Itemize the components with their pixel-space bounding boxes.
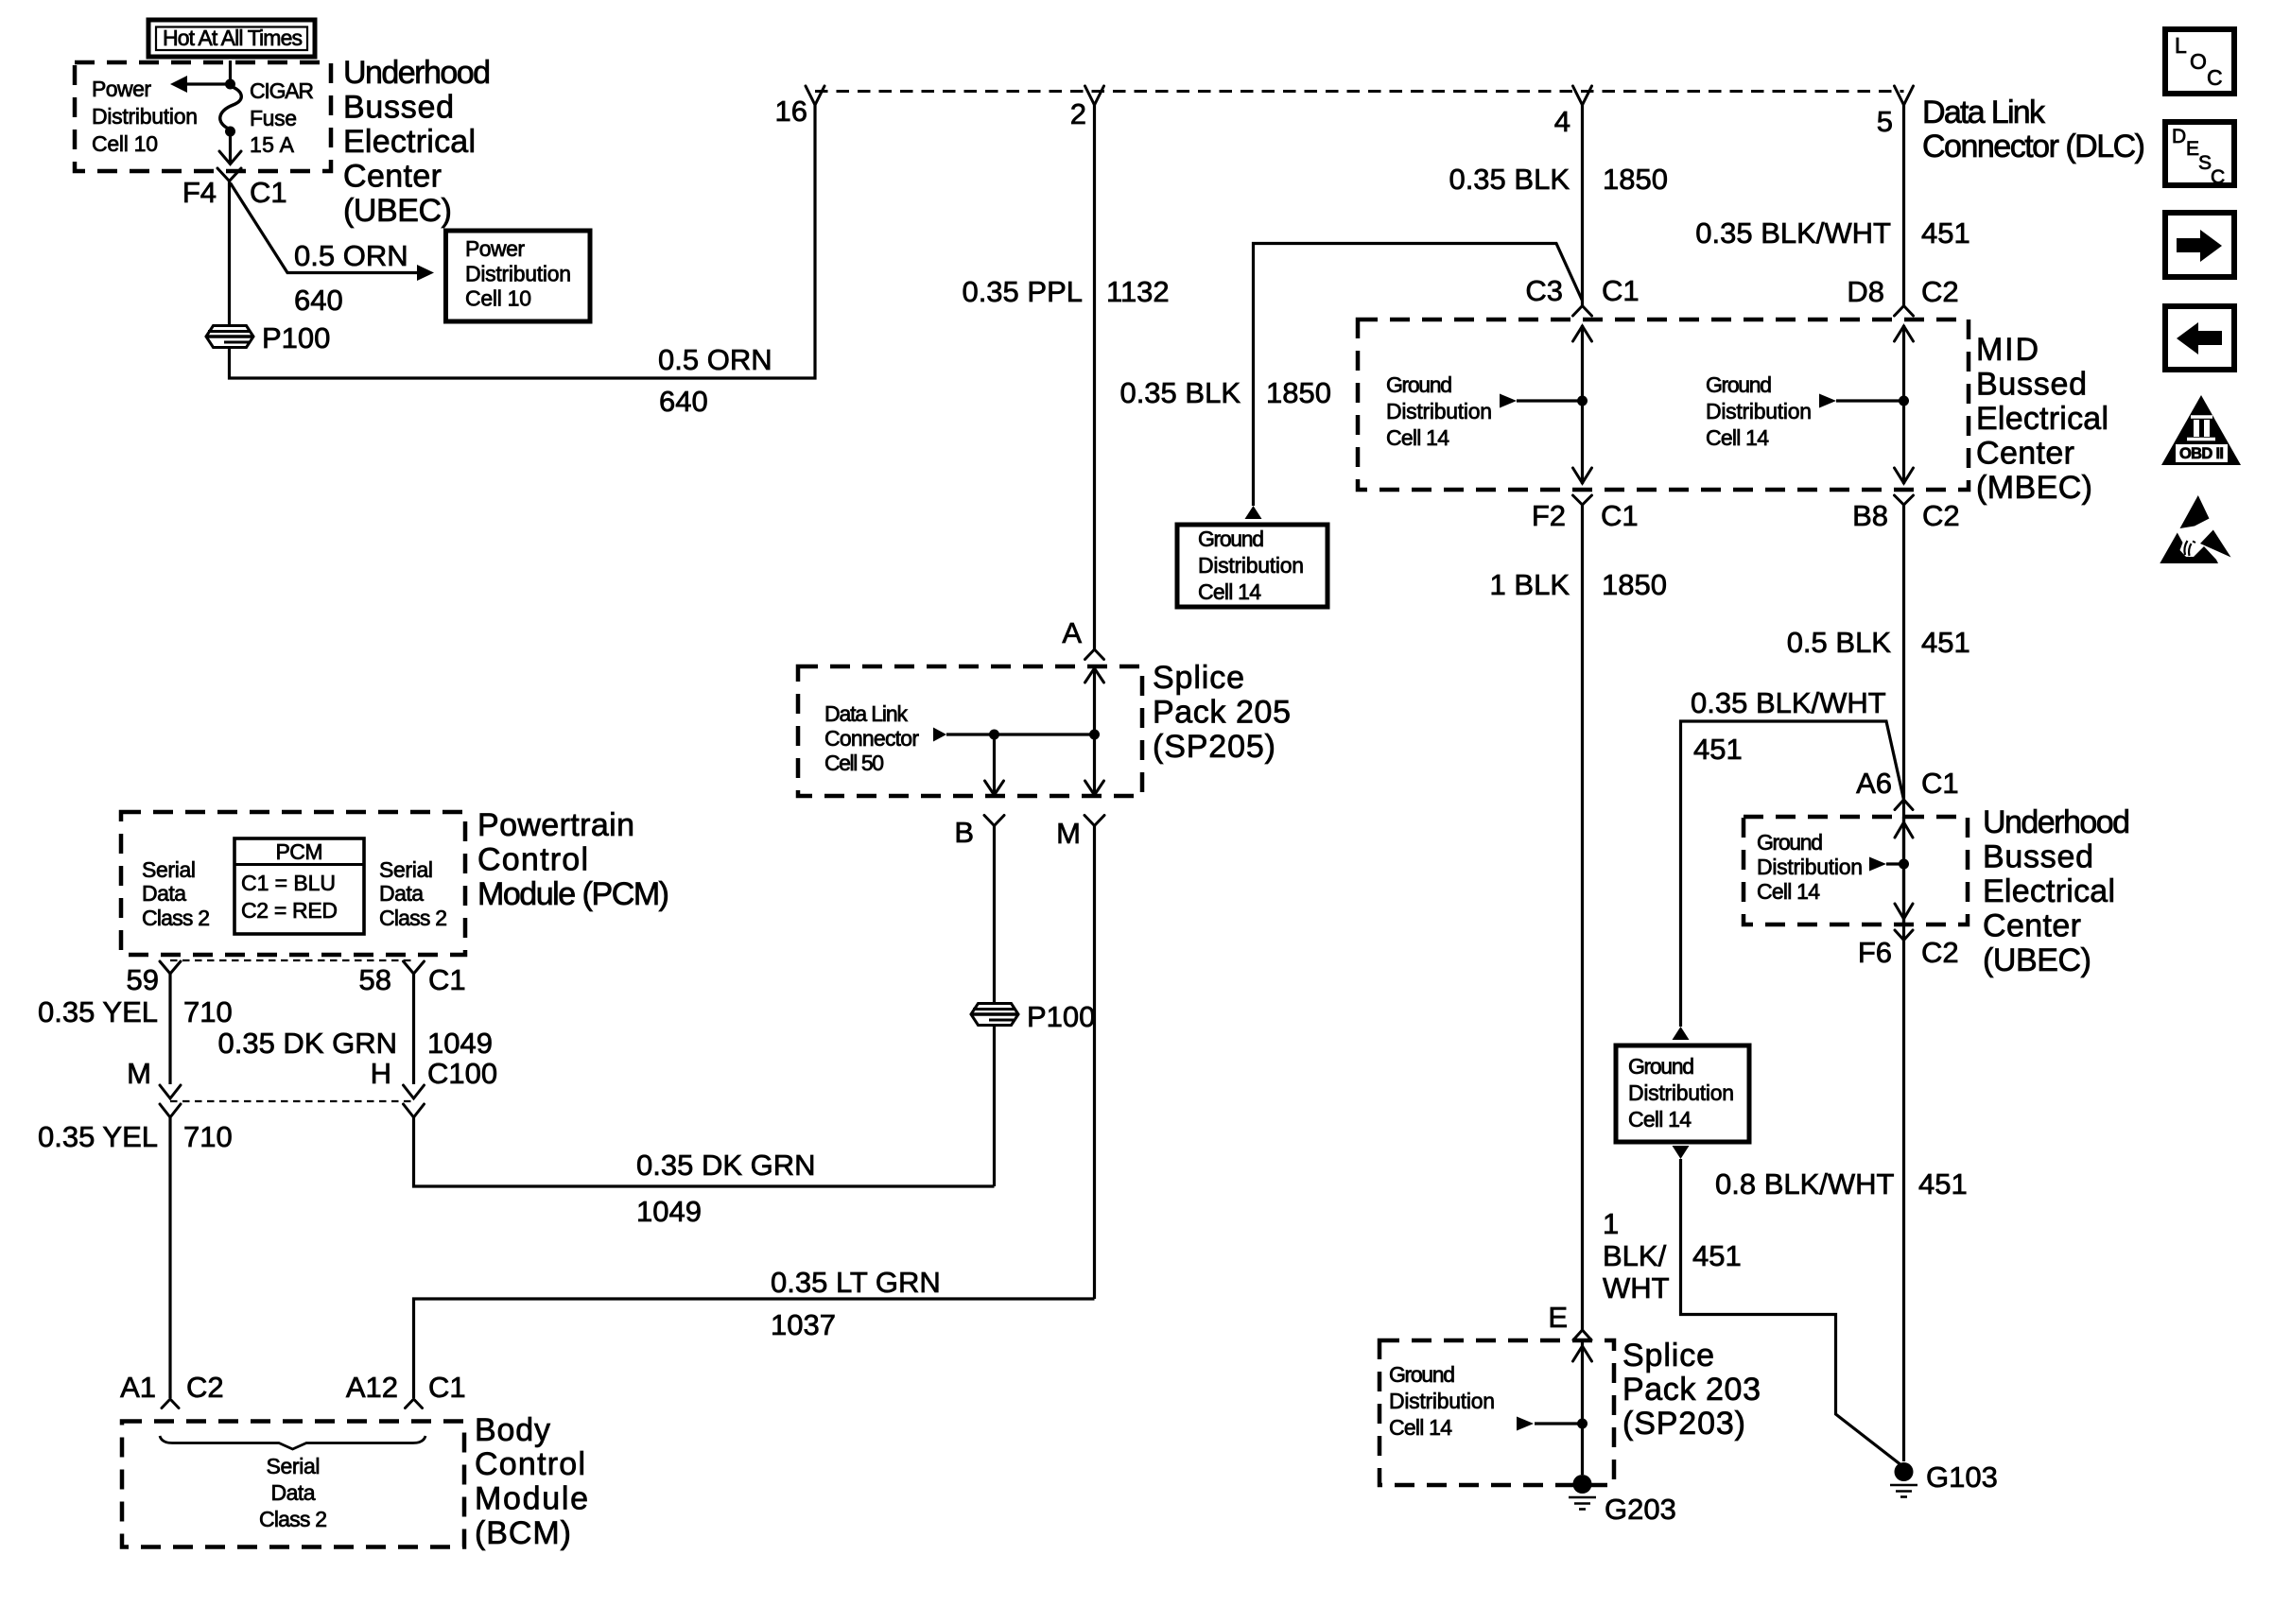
svg-text:Data: Data	[271, 1480, 316, 1505]
svg-text:0.35 DK GRN: 0.35 DK GRN	[636, 1149, 816, 1182]
svg-text:G103: G103	[1926, 1460, 1998, 1494]
svg-text:M: M	[127, 1057, 151, 1090]
svg-text:Cell 14: Cell 14	[1757, 879, 1820, 904]
svg-text:0.35 DK GRN: 0.35 DK GRN	[217, 1027, 397, 1060]
svg-text:0.8 BLK/WHT: 0.8 BLK/WHT	[1715, 1167, 1895, 1201]
PCM connector color key box	[234, 838, 364, 934]
label: Splice Pack 203 (SP203)	[1622, 1338, 1761, 1442]
svg-text:H: H	[371, 1057, 391, 1090]
svg-text:Module: Module	[475, 1481, 588, 1517]
svg-text:Data Link: Data Link	[1922, 95, 2046, 130]
svg-text:C1: C1	[428, 1371, 466, 1404]
svg-text:Body: Body	[475, 1412, 550, 1448]
svg-text:451: 451	[1918, 1167, 1968, 1201]
svg-text:640: 640	[294, 284, 343, 317]
svg-text:C2: C2	[1921, 275, 1959, 308]
svg-text:Cell 10: Cell 10	[465, 286, 531, 311]
svg-text:0.35 BLK: 0.35 BLK	[1119, 376, 1241, 409]
junction dot at fuse top	[225, 79, 235, 90]
svg-text:Underhood: Underhood	[1983, 804, 2130, 840]
label: Powertrain Control Module (PCM)	[477, 807, 669, 912]
svg-text:1850: 1850	[1266, 376, 1331, 409]
wire 1 BLK/WHT 451 (Ground Distribution to G103)	[1603, 1159, 1904, 1467]
svg-text:C100: C100	[427, 1057, 497, 1090]
icon: back arrow box	[2165, 306, 2234, 370]
svg-text:(UBEC): (UBEC)	[343, 193, 452, 229]
svg-text:710: 710	[183, 995, 233, 1028]
svg-text:1850: 1850	[1602, 568, 1667, 601]
svg-text:Splice: Splice	[1622, 1338, 1714, 1373]
svg-text:Power: Power	[92, 77, 151, 101]
svg-text:B: B	[954, 816, 974, 849]
svg-text:F6: F6	[1858, 936, 1892, 969]
svg-text:16: 16	[775, 95, 807, 128]
svg-text:59: 59	[127, 963, 159, 996]
svg-text:Pack 203: Pack 203	[1622, 1372, 1761, 1408]
wire 0.35 YEL 710 (C100 M down to BCM A1)	[38, 1117, 233, 1398]
svg-text:4: 4	[1554, 105, 1570, 138]
svg-text:640: 640	[659, 385, 708, 418]
svg-text:Bussed: Bussed	[1976, 367, 2087, 403]
wire 0.35 YEL 710 (pin 59 to C100 M)	[38, 974, 233, 1084]
connector D8 / C2 (MBEC top, line 5)	[1847, 275, 1958, 316]
bus: DLC internal dashed line	[815, 90, 1904, 93]
svg-text:0.35 PPL: 0.35 PPL	[962, 275, 1083, 308]
junction dot at fuse bottom	[225, 127, 235, 137]
inline connector P100 (second)	[971, 1000, 1095, 1033]
junction dot SP205 M	[1089, 730, 1100, 740]
svg-text:Cell 10: Cell 10	[92, 131, 158, 156]
svg-text:A6: A6	[1856, 767, 1892, 800]
svg-text:1049: 1049	[636, 1195, 702, 1228]
svg-text:1049: 1049	[427, 1027, 493, 1060]
svg-text:C: C	[2207, 65, 2223, 90]
svg-text:(MBEC): (MBEC)	[1976, 470, 2092, 506]
svg-text:451: 451	[1921, 626, 1970, 659]
connector pin E (SP203 top)	[1548, 1301, 1591, 1340]
svg-text:1037: 1037	[771, 1308, 836, 1341]
svg-text:(SP203): (SP203)	[1622, 1406, 1745, 1442]
SP203 internal wire E to G203	[1573, 1340, 1592, 1475]
label box: Hot At All Times	[148, 20, 315, 57]
svg-text:C1: C1	[250, 176, 287, 209]
svg-text:A: A	[1062, 616, 1082, 649]
module box: Powertrain Control Module (PCM) dashed	[121, 812, 465, 955]
svg-text:Distribution: Distribution	[1386, 399, 1492, 423]
svg-text:F2: F2	[1532, 499, 1566, 532]
svg-text:Bussed: Bussed	[343, 90, 454, 126]
wire 0.35 BLK 1850 branch C3 to Ground Distribution	[1119, 244, 1582, 507]
label: Body Control Module (BCM)	[475, 1412, 588, 1551]
ground distribution reference (MBEC right): text + arrow	[1706, 372, 1904, 450]
brace: serial data group	[160, 1436, 425, 1449]
connector pin 4	[1554, 86, 1592, 138]
svg-text:D8: D8	[1847, 275, 1884, 308]
SP205 internal wire B branch	[985, 734, 1004, 795]
label: MID Bussed Electrical Center (MBEC)	[1976, 332, 2108, 506]
svg-text:Ground: Ground	[1386, 372, 1452, 397]
off-page arrow to Power Distribution Cell 10	[170, 76, 231, 93]
connector pin 5	[1877, 86, 1914, 138]
svg-text:Cell 50: Cell 50	[824, 751, 884, 775]
wire: P100 down to 0.35 DK GRN junction	[993, 1026, 996, 1187]
fuse CIGAR 15 A	[220, 86, 241, 130]
svg-text:Class 2: Class 2	[259, 1507, 327, 1531]
wire: F4 down to P100	[228, 181, 231, 327]
svg-text:Serial: Serial	[379, 857, 433, 882]
ground G203	[1569, 1475, 1676, 1526]
svg-text:E: E	[1548, 1301, 1568, 1334]
wire 1 BLK 1850 (F2 down to SP203 E)	[1490, 505, 1667, 1330]
svg-text:5: 5	[1877, 105, 1893, 138]
wire 0.35 BLK/WHT 451 (A6 branch to Ground Distribution)	[1681, 686, 1904, 1027]
svg-text:C: C	[2211, 166, 2225, 188]
inline connector P100	[206, 321, 330, 354]
svg-text:0.5 ORN: 0.5 ORN	[294, 239, 408, 272]
svg-text:0.35 BLK/WHT: 0.35 BLK/WHT	[1691, 686, 1886, 719]
svg-text:(BCM): (BCM)	[475, 1515, 571, 1551]
connector pin 16	[775, 86, 824, 128]
reference box: Power Distribution Cell 10	[446, 231, 591, 321]
svg-text:D: D	[2172, 126, 2186, 147]
svg-text:451: 451	[1692, 1239, 1742, 1272]
svg-text:C1: C1	[1602, 274, 1640, 307]
junction dot SP205 B	[989, 730, 999, 740]
svg-text:A12: A12	[346, 1371, 398, 1404]
svg-text:Serial: Serial	[267, 1454, 321, 1478]
connector F2 / C1 (MBEC bottom)	[1532, 495, 1639, 532]
wire 0.8 BLK/WHT 451 label (F6 to G103)	[1715, 1167, 1968, 1201]
wire: SP205 B down to P100	[993, 826, 996, 1004]
UBEC internal wire A6 to F6	[1895, 817, 1913, 924]
svg-text:Center: Center	[1983, 908, 2081, 944]
svg-text:Class 2: Class 2	[379, 906, 447, 930]
svg-text:0.5 ORN: 0.5 ORN	[658, 343, 772, 376]
module box: MID Bussed Electrical Center (MBEC) dashed	[1358, 320, 1969, 490]
svg-text:Connector (DLC): Connector (DLC)	[1922, 129, 2145, 164]
svg-text:Module (PCM): Module (PCM)	[477, 876, 669, 912]
wire 0.35 PPL 1132 (pin 2 down to SP205 A)	[962, 104, 1169, 649]
svg-text:Distribution: Distribution	[1757, 855, 1863, 879]
module box: Underhood Bussed Electrical Center (dashed, lower right)	[1744, 817, 1968, 924]
svg-text:Power: Power	[465, 236, 525, 261]
data link connector reference (SP205): text + arrow	[824, 701, 1095, 775]
arrow: fuse output down	[219, 131, 241, 164]
svg-text:Distribution: Distribution	[1706, 399, 1812, 423]
svg-text:Ground: Ground	[1628, 1054, 1694, 1079]
wire: battery feed into UBEC	[229, 60, 232, 84]
connector A12 / C1 (BCM)	[346, 1371, 466, 1408]
svg-text:0.35 LT GRN: 0.35 LT GRN	[771, 1266, 941, 1299]
svg-text:C1 = BLU: C1 = BLU	[241, 871, 336, 895]
svg-text:CIGAR: CIGAR	[250, 78, 314, 103]
splice pack box: SP203 dashed	[1379, 1340, 1614, 1485]
wire: SP205 M down to 0.35 LT GRN corner	[1093, 826, 1096, 1300]
svg-text:451: 451	[1693, 733, 1743, 766]
svg-text:C2: C2	[186, 1371, 224, 1404]
junction dot UBEC	[1899, 859, 1909, 870]
svg-text:Distribution: Distribution	[1389, 1389, 1495, 1413]
svg-text:Powertrain: Powertrain	[477, 807, 634, 843]
wire 0.35 DK GRN 1049 (C100 H to P100 junction)	[414, 1117, 995, 1228]
svg-text:1850: 1850	[1603, 163, 1668, 196]
SP205 internal wire A to M	[1085, 668, 1104, 795]
svg-text:451: 451	[1921, 216, 1970, 250]
icon: DESC box	[2165, 122, 2234, 188]
svg-text:Electrical: Electrical	[1976, 401, 2108, 437]
wire 0.35 DK GRN 1049 (pin 58 to C100 H)	[217, 974, 492, 1084]
svg-text:Ground: Ground	[1706, 372, 1772, 397]
wire 0.5 BLK 451 (B8 down to G103)	[1787, 505, 1970, 1461]
label: serial data class 2 (PCM right)	[379, 857, 447, 930]
svg-text:1 BLK: 1 BLK	[1490, 568, 1570, 601]
ground distribution reference (UBEC): text + arrow	[1757, 830, 1904, 904]
ground distribution reference (SP203): text + arrow	[1389, 1362, 1583, 1440]
ground G103	[1890, 1460, 1998, 1497]
svg-text:A1: A1	[120, 1371, 156, 1404]
label: Underhood Bussed Electrical Center (UBEC)	[343, 55, 491, 229]
svg-text:Pack 205: Pack 205	[1153, 695, 1291, 731]
svg-text:Data Link: Data Link	[824, 701, 909, 726]
svg-text:C1: C1	[428, 963, 466, 996]
label: Splice Pack 205 (SP205)	[1153, 660, 1291, 765]
svg-text:Class 2: Class 2	[142, 906, 210, 930]
connector pin B (SP205 bottom)	[954, 816, 1004, 850]
label: Data Link Connector (DLC)	[1922, 95, 2145, 164]
connector pin A (SP205 top)	[1062, 616, 1103, 660]
connector A1 / C2 (BCM)	[120, 1371, 224, 1408]
svg-text:15 A: 15 A	[250, 132, 295, 157]
svg-text:0.35 BLK: 0.35 BLK	[1449, 163, 1570, 196]
svg-text:Control: Control	[477, 842, 588, 878]
svg-text:Data: Data	[142, 881, 186, 906]
svg-text:PCM: PCM	[276, 839, 323, 864]
svg-text:Control: Control	[475, 1446, 585, 1482]
off-page arrow up into Ground Distribution Cell 14 (mid right)	[1673, 1027, 1690, 1040]
svg-text:1132: 1132	[1106, 275, 1170, 308]
svg-text:Cell 14: Cell 14	[1198, 579, 1261, 604]
svg-text:C2: C2	[1921, 936, 1959, 969]
connector pin 2	[1070, 86, 1104, 130]
svg-text:BLK/: BLK/	[1603, 1239, 1667, 1272]
svg-text:P100: P100	[262, 321, 330, 354]
svg-text:C2 = RED: C2 = RED	[241, 898, 338, 923]
wire 0.35 BLK/WHT 451 (pin 5 down to MBEC C2)	[1695, 104, 1969, 306]
splice pack box: SP205 dashed	[798, 666, 1142, 796]
svg-text:Serial: Serial	[142, 857, 196, 882]
connector B8 / C2 (MBEC bottom)	[1852, 495, 1960, 532]
svg-text:OBD II: OBD II	[2179, 445, 2224, 462]
module box: Body Control Module (BCM) dashed	[122, 1422, 464, 1547]
connector F4 / C1	[182, 168, 287, 209]
MBEC internal wire C2 to B8	[1895, 325, 1914, 484]
connector C3 / C1 (MBEC top, line 4)	[1525, 274, 1639, 316]
off-page arrow down from Ground Distribution Cell 14	[1673, 1146, 1690, 1159]
icon: LOC box	[2165, 29, 2234, 94]
svg-text:Electrical: Electrical	[1983, 873, 2115, 909]
inline connector C100 (M / H)	[127, 1057, 497, 1117]
svg-text:Cell 14: Cell 14	[1628, 1107, 1692, 1132]
svg-text:(SP205): (SP205)	[1153, 729, 1275, 765]
svg-text:P100: P100	[1027, 1000, 1095, 1033]
MBEC internal wire C1 to F2	[1573, 325, 1592, 484]
icon: OBD II triangle	[2161, 395, 2241, 465]
wire 0.35 LT GRN 1037 (SP205 M to BCM A12)	[414, 1266, 1095, 1398]
svg-text:Center: Center	[343, 159, 442, 195]
svg-text:MID: MID	[1976, 332, 2039, 368]
svg-text:C2: C2	[1922, 499, 1960, 532]
ground distribution reference (MBEC left): text + arrow	[1386, 372, 1583, 450]
svg-text:0.35 YEL: 0.35 YEL	[38, 995, 158, 1028]
svg-text:Splice: Splice	[1153, 660, 1244, 696]
svg-text:0.35 BLK/WHT: 0.35 BLK/WHT	[1695, 216, 1891, 250]
svg-text:WHT: WHT	[1603, 1271, 1670, 1304]
icon: ESD triangle	[2160, 495, 2230, 563]
svg-text:Distribution: Distribution	[1198, 553, 1304, 578]
label: serial data class 2 (PCM left)	[142, 857, 210, 930]
connector F6 / C2 (UBEC bottom)	[1858, 930, 1959, 969]
svg-text:(UBEC): (UBEC)	[1983, 942, 2091, 978]
svg-text:0.35 YEL: 0.35 YEL	[38, 1120, 158, 1153]
svg-text:Distribution: Distribution	[1628, 1080, 1734, 1105]
svg-text:M: M	[1056, 817, 1081, 850]
svg-text:Underhood: Underhood	[343, 55, 491, 91]
svg-text:L: L	[2175, 33, 2187, 58]
icon: forward arrow box	[2165, 213, 2234, 277]
svg-text:Connector: Connector	[824, 726, 919, 751]
junction dot SP203	[1577, 1419, 1588, 1429]
svg-text:Center: Center	[1976, 436, 2074, 472]
svg-text:710: 710	[183, 1120, 233, 1153]
svg-text:58: 58	[359, 963, 391, 996]
svg-text:Fuse: Fuse	[250, 106, 297, 130]
label: serial data class 2 (BCM)	[259, 1454, 327, 1531]
svg-text:F4: F4	[182, 176, 217, 209]
svg-text:E: E	[2186, 138, 2199, 160]
svg-text:C3: C3	[1525, 274, 1563, 307]
svg-text:Cell 14: Cell 14	[1389, 1415, 1452, 1440]
label: Underhood Bussed Electrical Center (UBEC) lower right	[1983, 804, 2130, 978]
wire 0.35 BLK 1850 (pin 4 down to MBEC C1)	[1449, 104, 1668, 306]
svg-text:0.5 BLK: 0.5 BLK	[1787, 626, 1892, 659]
svg-text:Bussed: Bussed	[1983, 839, 2093, 875]
svg-text:Ground: Ground	[1198, 527, 1264, 551]
connector block: UBEC fuse box (dashed)	[75, 62, 331, 171]
svg-text:G203: G203	[1605, 1493, 1676, 1526]
connector pin M (SP205 bottom)	[1056, 816, 1104, 851]
svg-text:Data: Data	[379, 881, 424, 906]
svg-text:B8: B8	[1852, 499, 1888, 532]
off-page arrow into Ground Distribution Cell 14 (left)	[1245, 506, 1262, 519]
svg-text:C1: C1	[1921, 767, 1959, 800]
svg-text:C1: C1	[1601, 499, 1639, 532]
svg-text:Electrical: Electrical	[343, 124, 476, 160]
svg-text:1: 1	[1603, 1207, 1619, 1240]
wire 0.5 ORN 640 to Power Distribution (diagonal + arrow)	[231, 183, 435, 318]
junction dot MBEC left	[1577, 396, 1588, 406]
svg-text:Hot At All Times: Hot At All Times	[163, 26, 303, 50]
connector pin 59 (PCM)	[127, 961, 181, 996]
svg-text:2: 2	[1070, 97, 1086, 130]
junction dot MBEC right	[1899, 396, 1909, 406]
svg-text:Ground: Ground	[1757, 830, 1823, 855]
connector A6 / C1 (UBEC top)	[1856, 767, 1959, 810]
reference box: Ground Distribution Cell 14 (mid right)	[1616, 1045, 1749, 1142]
svg-text:Cell 14: Cell 14	[1706, 425, 1769, 450]
svg-text:Cell 14: Cell 14	[1386, 425, 1449, 450]
svg-text:O: O	[2190, 49, 2207, 74]
svg-text:Distribution: Distribution	[92, 104, 198, 129]
reference box: Ground Distribution Cell 14 (left)	[1177, 525, 1327, 607]
wire 0.5 ORN 640 from P100 to DLC pin 16	[230, 104, 816, 418]
svg-text:Ground: Ground	[1389, 1362, 1455, 1387]
svg-text:S: S	[2198, 152, 2212, 174]
PCM pin row dashed line	[170, 959, 414, 961]
svg-text:Distribution: Distribution	[465, 262, 571, 286]
connector pin 58 / C1 (PCM)	[359, 961, 466, 996]
